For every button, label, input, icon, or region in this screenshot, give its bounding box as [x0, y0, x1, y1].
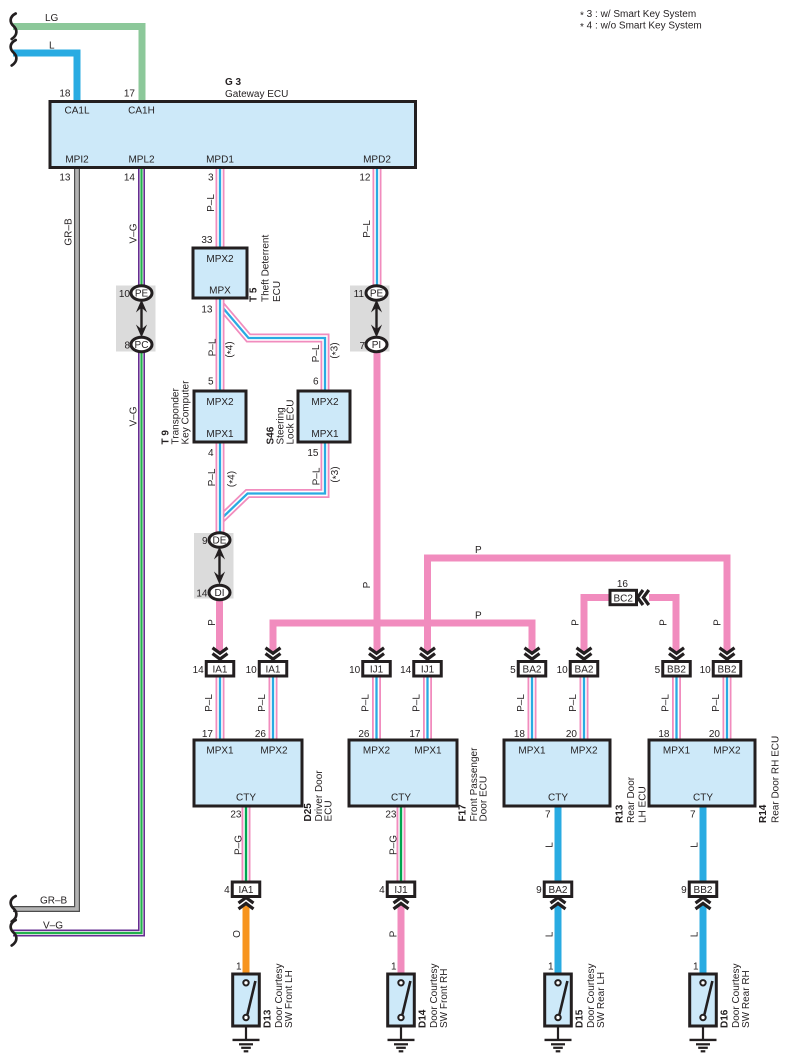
svg-text:IJ1: IJ1: [421, 664, 435, 675]
svg-text:MPX2: MPX2: [311, 397, 339, 408]
svg-text:(*3): (*3): [330, 342, 343, 358]
svg-text:V–G: V–G: [43, 921, 63, 932]
ECU G3 Gateway ECU box: [50, 102, 416, 168]
svg-text:12: 12: [359, 173, 371, 184]
svg-text:9: 9: [536, 885, 542, 896]
ECU T5 Theft Deterrent ECU box (MPX2/MPX): [193, 248, 247, 298]
wire L from off-page left to G3 pin 18 (CA1L): [13, 53, 77, 102]
svg-text:7: 7: [359, 341, 365, 352]
svg-text:GR–B: GR–B: [40, 896, 68, 907]
wire P from connector BC2 to BB2(5): [649, 598, 676, 653]
connector IA1(10): [259, 662, 287, 677]
svg-text:L: L: [545, 842, 556, 848]
svg-text:6: 6: [313, 377, 319, 388]
svg-text:IA1: IA1: [265, 664, 280, 675]
svg-text:BB2: BB2: [694, 885, 713, 896]
connector block shade for PE/PI: [350, 286, 390, 352]
wire P-L from IA1(14) to D25 MPX1 pin 17: [216, 675, 225, 742]
connector BA2(10): [570, 662, 598, 677]
svg-text:(*4): (*4): [225, 341, 238, 357]
svg-text:10: 10: [119, 289, 131, 300]
svg-text:* 4 : w/o Smart Key System: * 4 : w/o Smart Key System: [580, 21, 702, 34]
svg-text:P: P: [571, 619, 582, 626]
svg-text:P–L: P–L: [661, 694, 672, 712]
svg-text:7: 7: [690, 810, 696, 821]
wire L from BB2(9) to D16 pin 1: [700, 905, 707, 976]
svg-text:DE: DE: [213, 535, 227, 546]
svg-text:PE: PE: [135, 288, 149, 299]
wire P-L from IJ1(10) to F17 MPX2 pin 26: [372, 675, 381, 742]
off-page squiggle V-G wire: [11, 920, 17, 946]
svg-text:5: 5: [510, 665, 516, 676]
svg-text:R14: R14: [758, 804, 769, 823]
svg-text:P–L: P–L: [568, 694, 579, 712]
connector IJ1(4): [387, 882, 415, 897]
svg-text:17: 17: [124, 89, 136, 100]
svg-text:MPX2: MPX2: [206, 397, 234, 408]
wire GR-B from G3 MPI2 pin 13 down and left off-page: [13, 166, 77, 909]
svg-text:9: 9: [681, 885, 687, 896]
svg-text:P–L: P–L: [208, 338, 219, 356]
svg-text:P: P: [713, 619, 724, 626]
chevron arrow into IJ1(4) from below: [394, 898, 409, 909]
svg-text:D25: D25: [303, 803, 314, 822]
svg-text:4: 4: [208, 448, 214, 459]
svg-text:17: 17: [409, 729, 421, 740]
svg-text:D16: D16: [720, 1009, 731, 1028]
svg-text:L: L: [545, 931, 556, 937]
svg-text:V–G: V–G: [129, 406, 140, 426]
svg-text:23: 23: [230, 810, 242, 821]
svg-text:P–L: P–L: [311, 344, 322, 362]
wire P from connector DI(14) to connector IA1(14): [216, 597, 223, 652]
svg-text:MPI2: MPI2: [65, 155, 89, 166]
svg-text:MPX2: MPX2: [570, 746, 598, 757]
svg-text:14: 14: [124, 173, 136, 184]
svg-text:P–L: P–L: [711, 694, 722, 712]
svg-text:10: 10: [557, 665, 569, 676]
svg-text:L: L: [690, 842, 701, 848]
svg-text:T 5: T 5: [249, 287, 260, 302]
svg-text:5: 5: [208, 377, 214, 388]
svg-text:BC2: BC2: [613, 593, 633, 604]
svg-text:26: 26: [358, 729, 370, 740]
chevron arrow into IJ1(14): [420, 648, 435, 659]
connector BC2: [610, 590, 637, 604]
chevron arrow into BB2(10): [720, 648, 735, 659]
svg-text:PC: PC: [135, 340, 149, 351]
svg-text:16: 16: [617, 579, 629, 590]
svg-text:Rear Door: Rear Door: [626, 776, 637, 823]
ECU S46 Steering Lock ECU box (MPX2/MPX1): [298, 391, 350, 442]
svg-text:D15: D15: [575, 1009, 586, 1028]
chevron arrow into IA1(14): [213, 648, 228, 659]
switch D15 Door Courtesy SW Rear LH: [545, 974, 572, 1026]
svg-text:P–G: P–G: [234, 835, 245, 855]
wire V-G from connector PC(8) down and left off-page: [13, 349, 142, 933]
svg-text:MPD2: MPD2: [363, 155, 391, 166]
svg-text:P: P: [389, 930, 400, 937]
svg-text:1: 1: [391, 962, 397, 973]
wire P-L from T5 pin 13 to T9 pin 5: [216, 296, 225, 392]
svg-text:G 3: G 3: [225, 77, 242, 88]
svg-text:CTY: CTY: [548, 793, 568, 804]
svg-text:P–L: P–L: [362, 220, 373, 238]
wire P from IJ1(4) to D14 pin 1: [398, 905, 405, 976]
svg-text:3: 3: [208, 173, 214, 184]
svg-text:13: 13: [201, 305, 213, 316]
svg-text:P: P: [475, 545, 482, 556]
svg-text:MPD1: MPD1: [206, 155, 234, 166]
wire P-L branch from T5 pin 13 to S46 pin 6: [221, 305, 326, 392]
svg-text:BA2: BA2: [523, 664, 542, 675]
connector IJ1(10): [363, 662, 391, 677]
svg-text:MPX1: MPX1: [518, 746, 546, 757]
svg-text:MPL2: MPL2: [128, 155, 155, 166]
ECU F17 Front Passenger Door ECU box: [349, 740, 457, 806]
svg-text:(*4): (*4): [227, 471, 240, 487]
wire O from IA1(4) to D13 pin 1: [243, 905, 250, 976]
svg-text:MPX2: MPX2: [206, 254, 234, 265]
svg-text:1: 1: [548, 962, 554, 973]
wire P-L from G3 MPD1 pin 3 to T5 pin 33: [216, 166, 225, 249]
off-page squiggle GR-B wire: [11, 896, 17, 922]
wire L from R14 CTY pin 7 to BB2(9): [700, 805, 707, 884]
chevron arrow into IA1(10): [266, 648, 281, 659]
chevron arrow into BC2 (pointing left): [638, 590, 649, 605]
svg-text:10: 10: [246, 665, 258, 676]
svg-text:9: 9: [202, 536, 208, 547]
svg-text:Lock ECU: Lock ECU: [286, 399, 297, 444]
chevron arrow into BB2(5): [669, 648, 684, 659]
svg-text:IA1: IA1: [238, 885, 253, 896]
chevron arrow into IA1(4) from below: [239, 898, 254, 909]
switch D13 Door Courtesy SW Front LH: [233, 974, 260, 1026]
chevron arrow into IJ1(10): [369, 648, 384, 659]
switch D16 Door Courtesy SW Rear RH: [690, 974, 717, 1026]
wire P-G from D25 CTY pin 23 to IA1(4): [242, 805, 251, 884]
svg-text:13: 13: [59, 173, 71, 184]
svg-text:(*3): (*3): [330, 466, 343, 482]
svg-text:P–L: P–L: [312, 467, 323, 485]
svg-text:CA1H: CA1H: [128, 106, 155, 117]
wire P-L from IA1(10) to D25 MPX2 pin 26: [269, 675, 278, 742]
chevron arrow into BB2(9) from below: [696, 898, 711, 909]
svg-text:P: P: [207, 619, 218, 626]
wire P bus from IJ1(14) to BB2(10): [428, 558, 728, 652]
svg-text:GR–B: GR–B: [64, 218, 75, 246]
junction arrow between PE and PI: [371, 300, 382, 338]
svg-text:MPX1: MPX1: [663, 746, 691, 757]
svg-text:P–L: P–L: [206, 194, 217, 212]
svg-text:IJ1: IJ1: [370, 664, 384, 675]
svg-text:18: 18: [59, 89, 71, 100]
ground (D13): [233, 1026, 260, 1051]
svg-text:Key Computer: Key Computer: [181, 380, 192, 445]
svg-text:P–L: P–L: [257, 694, 268, 712]
svg-text:SW Front LH: SW Front LH: [284, 970, 295, 1028]
svg-text:MPX2: MPX2: [363, 746, 391, 757]
svg-text:DI: DI: [215, 588, 225, 599]
off-page squiggle LG wire: [11, 14, 17, 40]
svg-text:SW Front RH: SW Front RH: [439, 969, 450, 1028]
svg-text:L: L: [690, 931, 701, 937]
svg-text:ECU: ECU: [272, 281, 283, 302]
svg-text:V–G: V–G: [129, 223, 140, 243]
connector BB2(5): [663, 662, 691, 677]
wire P-L from BA2(10) to R13 MPX2 pin 20: [580, 675, 589, 742]
ECU R13 Rear Door LH ECU box: [504, 740, 610, 806]
svg-text:O: O: [232, 930, 243, 938]
wire P-L from IJ1(14) to F17 MPX1 pin 17: [423, 675, 432, 742]
svg-text:PI: PI: [372, 340, 381, 351]
svg-text:P–L: P–L: [204, 694, 215, 712]
svg-text:14: 14: [196, 589, 208, 600]
svg-text:LH ECU: LH ECU: [638, 786, 649, 823]
svg-text:4: 4: [224, 885, 230, 896]
wire P-L from BB2(5) to R14 MPX1 pin 18: [672, 675, 681, 742]
svg-text:CTY: CTY: [693, 793, 713, 804]
ground (D14): [388, 1026, 415, 1051]
ground (D15): [545, 1026, 572, 1051]
svg-text:P–L: P–L: [412, 694, 423, 712]
svg-text:10: 10: [700, 665, 712, 676]
chevron arrow into BA2(5): [525, 648, 540, 659]
svg-text:F17: F17: [458, 804, 469, 822]
svg-text:1: 1: [693, 962, 699, 973]
svg-text:CTY: CTY: [236, 793, 256, 804]
wire P-L from S46 pin 15 joining run to DE: [221, 441, 326, 520]
junction arrow between PE and PC: [136, 300, 147, 338]
svg-text:BB2: BB2: [718, 664, 737, 675]
wire P-L from BA2(5) to R13 MPX1 pin 18: [528, 675, 537, 742]
svg-text:P–L: P–L: [361, 694, 372, 712]
connector PC (in-line): [131, 337, 152, 351]
svg-text:14: 14: [193, 665, 205, 676]
connector BB2(10): [713, 662, 741, 677]
svg-text:L: L: [49, 41, 55, 52]
wire P bus from IA1(10) to BA2(5): [273, 623, 532, 652]
wire L from BA2(9) to D15 pin 1: [555, 905, 562, 976]
wire P-G from F17 CTY pin 23 to IJ1(4): [397, 805, 406, 884]
svg-text:Rear Door RH ECU: Rear Door RH ECU: [771, 736, 782, 823]
svg-text:P: P: [659, 619, 670, 626]
ground (D16): [690, 1026, 717, 1051]
svg-text:MPX: MPX: [209, 286, 231, 297]
svg-text:D13: D13: [263, 1009, 274, 1028]
svg-text:MPX1: MPX1: [311, 429, 339, 440]
wire P-L from G3 MPD2 pin 12 to connector PE(11): [373, 166, 382, 289]
ECU T9 Transponder Key Computer box (MPX2/MPX1): [194, 391, 246, 442]
svg-text:LG: LG: [45, 13, 59, 24]
svg-text:MPX2: MPX2: [713, 746, 741, 757]
svg-text:1: 1: [236, 962, 242, 973]
wire V-G from G3 MPL2 pin 14 to connector PE(10): [138, 166, 145, 288]
junction arrow between DE and DI: [214, 547, 225, 585]
svg-text:P–L: P–L: [207, 468, 218, 486]
svg-text:P: P: [475, 611, 482, 622]
connector IJ1(14): [414, 662, 442, 677]
connector block shade for PE/PC: [116, 286, 156, 352]
svg-text:BA2: BA2: [549, 885, 568, 896]
off-page squiggle L wire: [11, 40, 17, 66]
svg-text:P–G: P–G: [389, 835, 400, 855]
svg-text:Door ECU: Door ECU: [479, 776, 490, 822]
connector BA2(5): [518, 662, 546, 677]
svg-text:20: 20: [709, 729, 721, 740]
wire P from BA2(10) up to connector BC2: [584, 598, 611, 653]
connector DI (in-line): [209, 585, 230, 599]
svg-text:20: 20: [566, 729, 578, 740]
svg-text:8: 8: [124, 341, 130, 352]
switch D14 Door Courtesy SW Front RH: [388, 974, 415, 1026]
svg-text:MPX1: MPX1: [206, 429, 234, 440]
svg-text:PE: PE: [370, 288, 384, 299]
svg-text:IJ1: IJ1: [394, 885, 408, 896]
svg-text:7: 7: [545, 810, 551, 821]
svg-text:R13: R13: [615, 804, 626, 823]
chevron arrow into BA2(10): [577, 648, 592, 659]
svg-text:BB2: BB2: [667, 664, 686, 675]
ECU D25 Driver Door ECU box: [194, 740, 302, 806]
connector BA2(9): [544, 882, 572, 897]
svg-text:SW Rear LH: SW Rear LH: [596, 972, 607, 1028]
svg-text:26: 26: [255, 729, 267, 740]
svg-text:MPX2: MPX2: [260, 746, 288, 757]
connector block shade for DE/DI: [194, 533, 234, 599]
wire P-L from BB2(10) to R14 MPX2 pin 20: [723, 675, 732, 742]
wire P from connector PI(7) to connector IJ1(10): [374, 350, 381, 652]
connector PE (in-line, from MPD2): [366, 286, 387, 300]
wire P-L from T9 pin 4 to connector DE(9): [216, 441, 225, 535]
svg-text:18: 18: [658, 729, 670, 740]
svg-text:15: 15: [307, 448, 319, 459]
ECU R14 Rear Door RH ECU box: [649, 740, 755, 806]
connector DE (in-line): [209, 533, 230, 547]
connector PI (in-line): [366, 337, 387, 351]
svg-text:11: 11: [354, 289, 365, 300]
svg-text:Gateway ECU: Gateway ECU: [225, 89, 288, 100]
connector IA1(4): [232, 882, 260, 897]
connector BB2(9): [689, 882, 717, 897]
svg-text:10: 10: [349, 665, 361, 676]
svg-text:5: 5: [655, 665, 661, 676]
connector PE (in-line, from MPL2): [131, 286, 152, 300]
wire L from R13 CTY pin 7 to BA2(9): [555, 805, 562, 884]
wire LG from off-page left to G3 pin 17 (CA1H): [13, 27, 142, 103]
svg-text:18: 18: [514, 729, 526, 740]
chevron arrow into BA2(9) from below: [551, 898, 566, 909]
svg-text:MPX1: MPX1: [414, 746, 442, 757]
svg-text:P–L: P–L: [516, 694, 527, 712]
svg-text:P: P: [362, 581, 373, 588]
svg-text:MPX1: MPX1: [206, 746, 234, 757]
svg-text:BA2: BA2: [575, 664, 594, 675]
svg-text:CTY: CTY: [391, 793, 411, 804]
svg-text:SW Rear RH: SW Rear RH: [741, 970, 752, 1028]
svg-text:Theft Deterrent: Theft Deterrent: [261, 235, 272, 302]
svg-text:4: 4: [379, 885, 385, 896]
svg-text:ECU: ECU: [324, 800, 335, 821]
svg-text:D14: D14: [418, 1009, 429, 1028]
svg-text:CA1L: CA1L: [64, 106, 89, 117]
svg-text:23: 23: [385, 810, 397, 821]
svg-text:17: 17: [202, 729, 214, 740]
svg-text:33: 33: [201, 235, 213, 246]
svg-text:14: 14: [400, 665, 412, 676]
svg-text:IA1: IA1: [212, 664, 227, 675]
connector IA1(14): [206, 662, 234, 677]
